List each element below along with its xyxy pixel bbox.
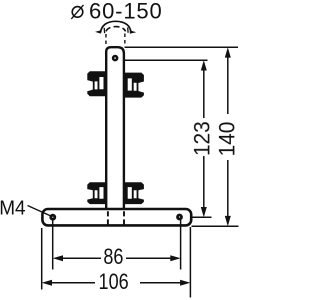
pipe inner dashed arc [106, 27, 126, 32]
dim line 140 [227, 50, 229, 224]
svg-text:106: 106 [99, 271, 129, 295]
extension line stem top [125, 46, 239, 48]
hidden stem edge dashes in bar [108, 211, 124, 227]
label dia 60-150 [72, 7, 83, 18]
svg-text:123: 123 [190, 121, 215, 156]
dashed band line left [105, 34, 107, 47]
extension hole right [180, 219, 182, 270]
svg-text:60-150: 60-150 [89, 0, 163, 24]
extension line top hole [118, 59, 208, 61]
dim line 106 [49, 282, 183, 284]
extension line bar bottom [192, 225, 239, 227]
stem top hole [113, 56, 117, 60]
dim line 86 [60, 257, 173, 259]
arc right tick [127, 27, 129, 32]
arrow 86 right [170, 255, 180, 261]
base bar [42, 209, 191, 225]
svg-text:M4: M4 [0, 197, 26, 220]
arrow 123 top [201, 60, 207, 70]
stem outline [106, 47, 124, 209]
arc left arrow [95, 30, 101, 33]
svg-text:86: 86 [103, 245, 123, 269]
dim line 123 [203, 63, 205, 215]
extension bar left end [41, 228, 43, 290]
pipe outer arc [101, 21, 131, 32]
arrow 86 left [53, 255, 63, 261]
base hole left [51, 215, 55, 219]
clip lower right [124, 182, 144, 204]
arrow 106 left [42, 280, 52, 286]
arc right arrow [130, 30, 136, 34]
arrow 140 top [225, 47, 231, 57]
arrow 106 right [180, 280, 190, 286]
clip upper left [87, 71, 107, 96]
extension line base hole right [182, 216, 211, 218]
arc left tick [103, 28, 105, 33]
arrow 123 bottom [201, 207, 207, 217]
extension hole left [52, 219, 54, 270]
M4 leader [28, 206, 51, 216]
base hole right [178, 215, 182, 219]
dashed band line right [124, 34, 126, 47]
arrow 140 bottom [225, 216, 231, 226]
clip upper right [124, 73, 144, 98]
clip lower left [87, 182, 107, 204]
extension bar right end [189, 227, 191, 298]
svg-text:140: 140 [215, 122, 240, 157]
